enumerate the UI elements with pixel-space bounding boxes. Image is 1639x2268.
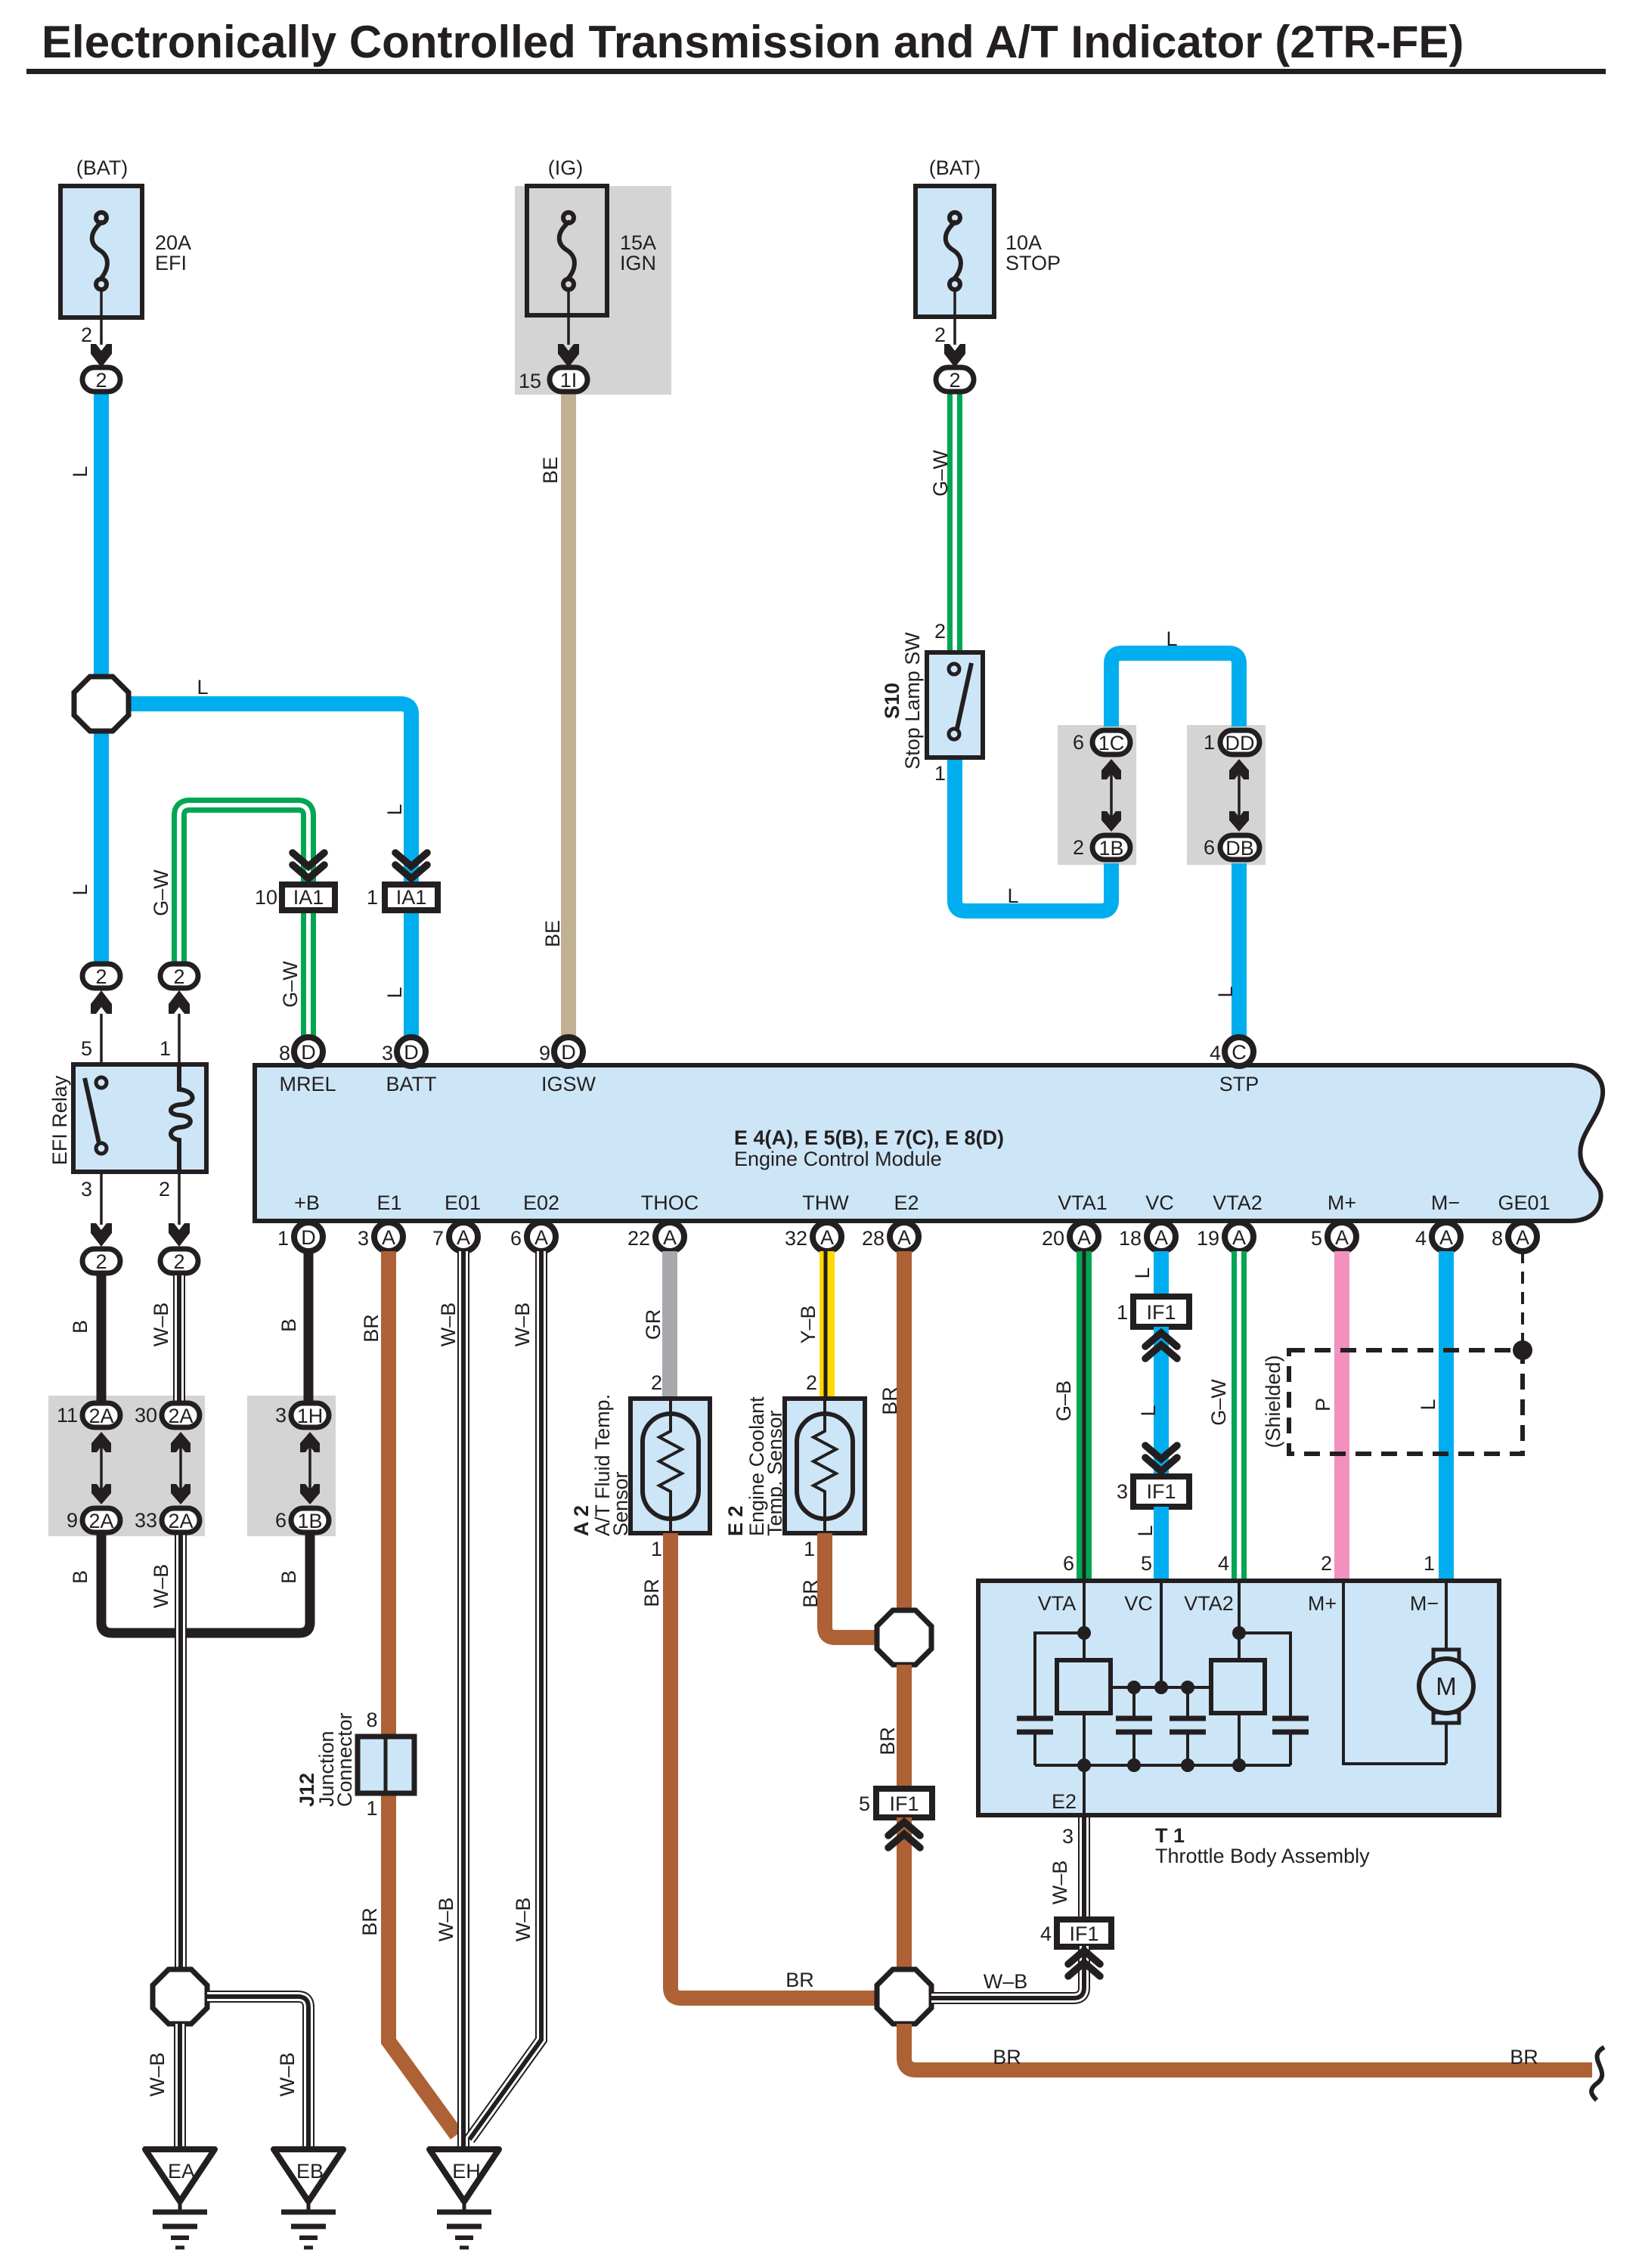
ECM pin 20A VTA1 xyxy=(1042,1222,1098,1251)
svg-text:19: 19 xyxy=(1197,1227,1219,1250)
svg-text:2: 2 xyxy=(81,324,92,346)
TB internal M+ line xyxy=(1343,1581,1446,1764)
svg-text:15A: 15A xyxy=(620,231,656,254)
svg-text:M: M xyxy=(1436,1672,1457,1700)
connector IF1 pin1 xyxy=(1117,1297,1189,1327)
svg-text:3: 3 xyxy=(275,1404,287,1427)
svg-text:D: D xyxy=(404,1041,419,1064)
svg-text:EFI: EFI xyxy=(155,252,187,274)
svg-text:G–W: G–W xyxy=(279,961,302,1008)
svg-text:2A: 2A xyxy=(168,1405,193,1427)
svg-text:EH: EH xyxy=(452,2160,481,2183)
wire W-B 2A(33) down to splice xyxy=(175,1535,187,1969)
A2 A/T fluid temp sensor xyxy=(570,1394,710,1536)
double chevron below IF1(5) xyxy=(888,1822,920,1848)
svg-text:20: 20 xyxy=(1042,1227,1064,1250)
TB internal mid capacitor 1 xyxy=(1116,1687,1152,1765)
connector DD xyxy=(1204,730,1259,754)
svg-text:4: 4 xyxy=(1218,1552,1229,1575)
svg-text:3: 3 xyxy=(81,1178,92,1201)
svg-text:2: 2 xyxy=(1073,836,1084,859)
svg-text:Connector: Connector xyxy=(333,1712,356,1807)
svg-text:1: 1 xyxy=(804,1538,815,1560)
svg-text:L: L xyxy=(1007,885,1018,907)
svg-text:E1: E1 xyxy=(376,1191,401,1214)
svg-text:W–B: W–B xyxy=(511,1303,534,1347)
svg-text:10: 10 xyxy=(255,886,277,909)
svg-text:C: C xyxy=(1232,1041,1247,1064)
svg-text:A: A xyxy=(1335,1226,1349,1249)
ECM pin 18A VC xyxy=(1119,1222,1176,1251)
svg-text:W–B: W–B xyxy=(437,1303,460,1347)
svg-text:M+: M+ xyxy=(1308,1592,1337,1615)
ECM pin 1D +B xyxy=(277,1222,323,1251)
splice octagon (bottom BR) xyxy=(877,1969,931,2024)
wire L splice to connector 2 (relay pin5 branch) xyxy=(94,730,109,962)
svg-text:DD: DD xyxy=(1225,732,1255,754)
TB motor M xyxy=(1419,1650,1473,1764)
svg-text:1I: 1I xyxy=(560,369,578,392)
splice octagon (EFI battery feed) xyxy=(74,677,129,731)
svg-text:2: 2 xyxy=(934,620,946,643)
wire BR splice to harness (right, broken) xyxy=(904,2024,1592,2070)
svg-text:EFI Relay: EFI Relay xyxy=(48,1075,71,1165)
S10 stop lamp switch xyxy=(881,620,983,785)
svg-text:BATT: BATT xyxy=(386,1073,437,1095)
wire B loop 2A(9) to 1B(6) xyxy=(101,1535,310,1633)
svg-text:W–B: W–B xyxy=(146,2053,169,2097)
wire L connector 1C over to connector DD xyxy=(1111,653,1239,727)
double chevron into IA1 (MREL) xyxy=(293,853,324,878)
ECM pin 19A VTA2 xyxy=(1197,1222,1253,1251)
svg-text:G–W: G–W xyxy=(150,869,172,916)
svg-text:A 2: A 2 xyxy=(570,1505,593,1536)
gray panel behind 1H/1B connectors xyxy=(247,1396,336,1536)
svg-text:2: 2 xyxy=(95,965,107,988)
svg-text:BR: BR xyxy=(640,1579,663,1607)
svg-text:A: A xyxy=(382,1226,395,1249)
relay pin3 drop to connector 2 xyxy=(81,1172,120,1273)
relay pin2 drop to connector 2 xyxy=(159,1172,198,1273)
svg-text:G–W: G–W xyxy=(929,450,952,497)
TB internal M- line xyxy=(1445,1581,1448,1651)
ECM pin 8D MREL xyxy=(279,1037,323,1066)
wire BR E2 sensor to splice xyxy=(825,1533,877,1637)
wire BR splice to IF1(5) xyxy=(897,1665,912,1789)
double chevron below IF1(1) xyxy=(1145,1333,1177,1359)
EFI relay xyxy=(48,1064,206,1172)
connector 2 (relay pin1, upper) xyxy=(160,964,198,1064)
double chevron above IF1(3) xyxy=(1145,1445,1177,1471)
ground EB xyxy=(274,2149,343,2248)
svg-text:VC: VC xyxy=(1145,1191,1174,1214)
svg-text:B: B xyxy=(277,1570,300,1584)
svg-text:VC: VC xyxy=(1124,1592,1153,1615)
connector 2 (relay pin5, upper) xyxy=(81,964,120,1064)
TB internal E2 out xyxy=(1083,1765,1086,1815)
fuse 15A IGN xyxy=(519,156,656,392)
connector DB xyxy=(1204,835,1259,860)
wire P ECM M+ to TB xyxy=(1334,1251,1349,1579)
junction arrow 1C-1B xyxy=(1101,759,1121,832)
svg-text:MREL: MREL xyxy=(279,1073,336,1095)
svg-text:5: 5 xyxy=(859,1792,870,1815)
svg-text:T 1: T 1 xyxy=(1155,1824,1185,1847)
connector 1B (stop) xyxy=(1073,835,1130,860)
svg-text:EB: EB xyxy=(296,2160,324,2183)
svg-text:11: 11 xyxy=(57,1404,78,1427)
svg-text:(Shielded): (Shielded) xyxy=(1262,1355,1284,1448)
svg-text:A: A xyxy=(663,1226,677,1249)
svg-text:E01: E01 xyxy=(445,1191,481,1214)
fuse 20A EFI xyxy=(60,156,191,392)
svg-text:B: B xyxy=(69,1570,91,1584)
svg-text:THW: THW xyxy=(802,1191,849,1214)
svg-text:G–W: G–W xyxy=(1207,1379,1230,1426)
wire break squiggle xyxy=(1591,2047,1604,2100)
wire BE fuse IGN to ECM IGSW xyxy=(561,392,576,1037)
svg-text:M−: M− xyxy=(1410,1592,1439,1615)
svg-text:B: B xyxy=(277,1318,300,1332)
svg-text:GE01: GE01 xyxy=(1498,1191,1550,1214)
svg-text:BR: BR xyxy=(360,1314,383,1343)
svg-text:IA1: IA1 xyxy=(396,886,427,909)
TB internal right capacitor branch xyxy=(1239,1633,1309,1765)
svg-text:E2: E2 xyxy=(1052,1790,1077,1813)
svg-text:BR: BR xyxy=(799,1579,822,1608)
junction arrow 2A-2A (right) xyxy=(171,1432,191,1504)
svg-text:10A: 10A xyxy=(1005,231,1042,254)
svg-text:D: D xyxy=(301,1041,316,1064)
svg-text:1: 1 xyxy=(160,1037,171,1060)
TB internal VTA2 to bottom rail xyxy=(1238,1713,1241,1765)
TB internal bottom rail xyxy=(1035,1764,1290,1767)
wire L ECM VC to IF1(1) xyxy=(1154,1251,1169,1298)
svg-text:BR: BR xyxy=(876,1727,899,1755)
svg-text:1: 1 xyxy=(366,1797,377,1820)
ground EH xyxy=(429,2149,499,2248)
svg-text:THOC: THOC xyxy=(641,1191,699,1214)
svg-text:8: 8 xyxy=(366,1709,377,1731)
svg-text:2: 2 xyxy=(95,369,107,392)
junction arrow 1H-1B xyxy=(300,1432,320,1504)
svg-text:7: 7 xyxy=(432,1227,444,1250)
svg-text:(IG): (IG) xyxy=(548,156,584,179)
svg-text:8: 8 xyxy=(279,1042,290,1064)
svg-text:BR: BR xyxy=(785,1969,814,1991)
svg-text:L: L xyxy=(1137,1405,1160,1416)
svg-text:E 2: E 2 xyxy=(724,1505,747,1536)
wire L fuse EFI to splice xyxy=(94,392,109,677)
svg-text:1: 1 xyxy=(367,886,378,909)
svg-text:E02: E02 xyxy=(523,1191,559,1214)
svg-text:DB: DB xyxy=(1225,837,1254,860)
title xyxy=(26,17,1606,74)
ECM pin 5A M+ xyxy=(1311,1222,1356,1251)
svg-text:Y–B: Y–B xyxy=(797,1305,819,1343)
svg-text:1: 1 xyxy=(1204,731,1215,754)
svg-text:BR: BR xyxy=(358,1907,381,1936)
svg-text:A: A xyxy=(1077,1226,1091,1249)
svg-text:BE: BE xyxy=(539,457,562,484)
TB internal node dots mid xyxy=(1127,1681,1194,1694)
svg-text:(BAT): (BAT) xyxy=(76,156,129,179)
connector IF1 pin4 xyxy=(1040,1919,1111,1947)
shield junction dot xyxy=(1513,1340,1532,1360)
double chevron below IF1(4) xyxy=(1068,1950,1100,1976)
svg-text:L: L xyxy=(1131,1267,1154,1278)
double chevron into IA1 (BATT) xyxy=(395,853,427,878)
svg-text:3: 3 xyxy=(1062,1825,1074,1848)
svg-text:Stop Lamp SW: Stop Lamp SW xyxy=(901,632,924,770)
gray panel behind 2A connectors xyxy=(48,1396,205,1536)
svg-text:E2: E2 xyxy=(894,1191,919,1214)
junction arrow DD-DB xyxy=(1229,759,1249,832)
TB internal node dot VTA2 xyxy=(1232,1626,1246,1640)
junction arrow 2A-2A (left) xyxy=(91,1432,111,1504)
svg-text:1B: 1B xyxy=(297,1510,322,1532)
svg-text:28: 28 xyxy=(862,1227,885,1250)
ECM pin 3A E1 xyxy=(358,1222,403,1251)
svg-text:L: L xyxy=(1417,1399,1439,1410)
svg-text:1B: 1B xyxy=(1098,837,1123,860)
svg-text:IF1: IF1 xyxy=(889,1792,919,1815)
TB internal mid link xyxy=(1111,1686,1211,1689)
ECM engine control module box xyxy=(255,1065,1603,1221)
connector IF1 pin3 xyxy=(1117,1476,1189,1507)
svg-text:(BAT): (BAT) xyxy=(929,156,981,179)
ECM pin 4C STP xyxy=(1210,1037,1253,1066)
wire W-B splice to EA xyxy=(174,2024,186,2149)
svg-text:2: 2 xyxy=(1321,1552,1332,1575)
connector 1H pin3 xyxy=(275,1403,329,1427)
svg-text:IGSW: IGSW xyxy=(541,1073,596,1095)
svg-text:Throttle Body Assembly: Throttle Body Assembly xyxy=(1155,1845,1370,1867)
svg-text:M+: M+ xyxy=(1328,1191,1356,1214)
svg-text:4: 4 xyxy=(1210,1042,1221,1064)
wire L connector DB to ECM STP xyxy=(1232,863,1247,1037)
ECM pin 6A E02 xyxy=(510,1222,556,1251)
svg-text:2: 2 xyxy=(159,1178,170,1201)
svg-text:3: 3 xyxy=(382,1042,393,1064)
svg-text:IF1: IF1 xyxy=(1146,1480,1176,1503)
svg-text:2A: 2A xyxy=(168,1510,193,1532)
svg-text:Electronically Controlled Tran: Electronically Controlled Transmission a… xyxy=(42,17,1464,67)
ECM pin 3D BATT xyxy=(382,1037,426,1066)
svg-text:W–B: W–B xyxy=(1049,1861,1071,1905)
svg-text:6: 6 xyxy=(1073,731,1084,754)
ECM pin 8A GE01 xyxy=(1492,1222,1537,1251)
svg-text:A: A xyxy=(1154,1226,1168,1249)
wire G-B ECM VTA1 to TB xyxy=(1077,1251,1092,1579)
svg-text:IGN: IGN xyxy=(620,252,656,274)
svg-text:W–B: W–B xyxy=(512,1898,534,1942)
svg-text:BR: BR xyxy=(878,1387,901,1415)
wire Y-B ECM THW to E2 sensor xyxy=(826,1251,827,1400)
svg-text:STOP: STOP xyxy=(1005,252,1061,274)
wire L ECM M- to TB xyxy=(1439,1251,1454,1579)
gray panel behind 1C/1B connectors xyxy=(1058,725,1136,865)
connector 2A pin11 xyxy=(57,1403,120,1427)
svg-text:L: L xyxy=(1214,986,1237,997)
connector IF1 pin5 xyxy=(859,1789,932,1817)
svg-text:5: 5 xyxy=(81,1037,92,1060)
svg-text:W–B: W–B xyxy=(435,1898,457,1942)
svg-text:3: 3 xyxy=(1117,1480,1128,1503)
shield dashed box xyxy=(1289,1350,1523,1454)
svg-text:22: 22 xyxy=(627,1227,650,1250)
svg-text:1: 1 xyxy=(1424,1552,1435,1575)
svg-text:A: A xyxy=(457,1226,470,1249)
svg-text:8: 8 xyxy=(1492,1227,1503,1250)
svg-text:6: 6 xyxy=(1063,1552,1074,1575)
wire G-W connector 2 up over to IA1 (MREL feed) xyxy=(179,805,308,962)
svg-text:W–B: W–B xyxy=(984,1970,1028,1993)
svg-text:GR: GR xyxy=(642,1309,665,1340)
wire W-B ECM E02 to EH ground xyxy=(469,1251,541,2139)
wire GE01 dashed shield drain xyxy=(1521,1251,1524,1350)
ECM pin 4A M- xyxy=(1415,1222,1461,1251)
svg-text:W–B: W–B xyxy=(276,2053,299,2097)
svg-text:15: 15 xyxy=(519,370,541,392)
svg-text:1: 1 xyxy=(934,762,946,785)
connector 1C xyxy=(1073,730,1130,754)
wire W-B splice to EB xyxy=(207,1997,308,2149)
wire BR IF1(5) to bottom splice xyxy=(897,1817,912,1970)
svg-text:6: 6 xyxy=(510,1227,522,1250)
ECM pin 7A E01 xyxy=(432,1222,478,1251)
svg-text:2: 2 xyxy=(806,1371,817,1394)
svg-text:3: 3 xyxy=(358,1227,369,1250)
connector IA1 pin1 xyxy=(367,885,438,910)
svg-text:A: A xyxy=(1232,1226,1246,1249)
svg-text:2: 2 xyxy=(173,1250,184,1273)
wire L splice to IA1 (BATT feed) xyxy=(122,704,411,885)
svg-text:W–B: W–B xyxy=(150,1564,172,1609)
svg-text:9: 9 xyxy=(539,1042,550,1064)
svg-text:33: 33 xyxy=(135,1509,157,1532)
svg-text:L: L xyxy=(1166,627,1177,650)
TB internal mid capacitor 2 xyxy=(1170,1687,1206,1765)
fuse 10A STOP xyxy=(916,156,1061,392)
svg-text:E 4(A), E 5(B), E 7(C), E 8(D): E 4(A), E 5(B), E 7(C), E 8(D) xyxy=(734,1126,1004,1149)
svg-text:Temp. Sensor: Temp. Sensor xyxy=(764,1410,786,1536)
svg-text:A: A xyxy=(897,1226,911,1249)
svg-text:A: A xyxy=(1516,1226,1529,1249)
svg-text:1H: 1H xyxy=(297,1405,324,1427)
svg-text:A: A xyxy=(534,1226,548,1249)
wire BR ECM E2(28) down to splice xyxy=(897,1251,912,1610)
T1 throttle body assembly xyxy=(978,1581,1499,1815)
svg-text:M−: M− xyxy=(1431,1191,1460,1214)
svg-text:BR: BR xyxy=(1510,2046,1538,2068)
svg-text:L: L xyxy=(383,987,406,998)
svg-text:IF1: IF1 xyxy=(1146,1301,1176,1324)
svg-text:W–B: W–B xyxy=(150,1303,172,1347)
svg-text:2: 2 xyxy=(173,965,184,988)
svg-text:5: 5 xyxy=(1311,1227,1322,1250)
svg-text:5: 5 xyxy=(1141,1552,1152,1575)
gray panel behind IGN fuse xyxy=(515,186,671,395)
svg-text:IA1: IA1 xyxy=(293,886,324,909)
svg-text:32: 32 xyxy=(785,1227,807,1250)
wire L IF1(1) to IF1(3) xyxy=(1154,1327,1169,1476)
wire L S10 pin1 to connector 1B xyxy=(955,756,1111,911)
svg-text:B: B xyxy=(69,1320,91,1334)
gray panel behind DD/DB connectors xyxy=(1187,725,1266,865)
connector IA1 pin10 xyxy=(255,885,335,910)
svg-text:2: 2 xyxy=(651,1371,662,1394)
ground EA xyxy=(145,2149,215,2248)
TB internal VTA2 line xyxy=(1238,1581,1241,1660)
svg-text:30: 30 xyxy=(135,1404,157,1427)
svg-text:1: 1 xyxy=(277,1227,289,1250)
wire G-W fuse STOP to S10 xyxy=(947,392,962,655)
ECM pin 28A E2 xyxy=(862,1222,919,1251)
splice octagon (ground W-B) xyxy=(153,1969,207,2024)
E2 engine coolant temp sensor xyxy=(724,1396,865,1536)
svg-text:D: D xyxy=(561,1041,576,1064)
wire G-W ECM VTA2 to TB xyxy=(1232,1251,1247,1579)
ECM pin 22A THOC xyxy=(627,1222,684,1251)
TB potentiometer VTA2 xyxy=(1211,1660,1265,1713)
ECM pin 9D IGSW xyxy=(539,1037,583,1066)
svg-text:A: A xyxy=(1439,1226,1453,1249)
wire L IF1(3) to TB VC xyxy=(1154,1507,1169,1579)
svg-text:Sensor: Sensor xyxy=(609,1471,632,1536)
svg-text:IF1: IF1 xyxy=(1069,1923,1098,1945)
svg-text:L: L xyxy=(383,804,406,815)
svg-text:STP: STP xyxy=(1219,1073,1259,1095)
svg-text:+B: +B xyxy=(294,1191,320,1214)
TB internal bottom rail dots xyxy=(1077,1758,1246,1772)
connector 2A pin30 xyxy=(135,1403,200,1427)
svg-text:Engine Control Module: Engine Control Module xyxy=(734,1148,942,1170)
svg-text:VTA2: VTA2 xyxy=(1184,1592,1234,1615)
connector 2A pin33 xyxy=(135,1508,200,1532)
svg-text:L: L xyxy=(1134,1525,1157,1536)
svg-text:BE: BE xyxy=(541,920,564,947)
wire W-B TB E2 pin3 to IF1(4) xyxy=(1078,1815,1090,1919)
wire W-B relay to 2A xyxy=(173,1275,185,1401)
TB potentiometer VTA xyxy=(1057,1660,1111,1713)
splice octagon (sensor ground BR) xyxy=(877,1610,931,1665)
T1 label xyxy=(1155,1824,1370,1867)
svg-text:2: 2 xyxy=(95,1250,107,1273)
svg-text:L: L xyxy=(69,466,91,477)
svg-text:L: L xyxy=(69,884,91,895)
wire W-B ECM E01 to EH ground xyxy=(457,1251,469,2149)
svg-text:1C: 1C xyxy=(1098,732,1125,754)
wire B ECM +B to 1H xyxy=(304,1251,314,1401)
svg-text:P: P xyxy=(1312,1398,1334,1411)
svg-text:2: 2 xyxy=(949,369,960,392)
svg-text:A: A xyxy=(820,1226,834,1249)
svg-text:VTA: VTA xyxy=(1038,1592,1077,1615)
svg-text:2: 2 xyxy=(934,324,946,346)
svg-text:VTA1: VTA1 xyxy=(1058,1191,1108,1214)
svg-text:G–B: G–B xyxy=(1052,1380,1075,1421)
svg-text:D: D xyxy=(301,1226,316,1249)
svg-text:1: 1 xyxy=(651,1538,662,1560)
svg-text:2A: 2A xyxy=(88,1510,113,1532)
wire B relay to 2A xyxy=(97,1275,107,1401)
connector 2A pin9 xyxy=(67,1508,120,1532)
TB internal node dot VTA xyxy=(1077,1626,1091,1640)
wire GR ECM THOC to A2 sensor xyxy=(662,1251,677,1400)
TB internal left capacitor branch xyxy=(1017,1633,1084,1765)
svg-text:2A: 2A xyxy=(88,1405,113,1427)
